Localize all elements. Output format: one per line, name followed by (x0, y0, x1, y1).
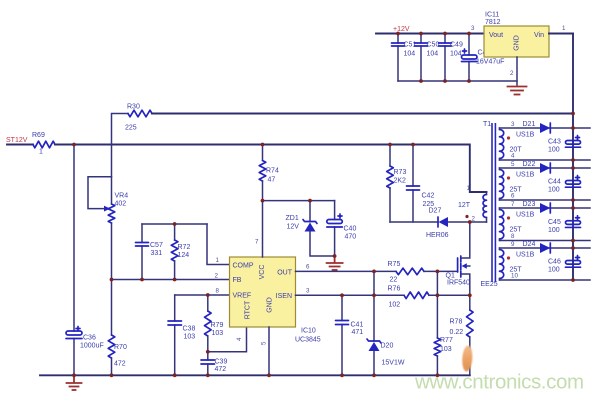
svg-text:D23: D23 (523, 201, 536, 208)
wire comp network top (142, 223, 207, 225)
svg-text:R72: R72 (178, 244, 191, 251)
resistor R78 0.22 (450, 310, 474, 375)
svg-text:VCC: VCC (259, 265, 266, 280)
svg-text:C39: C39 (215, 359, 228, 366)
potentiometer VR4 (88, 145, 128, 224)
svg-text:12T: 12T (458, 202, 471, 209)
svg-text:7812: 7812 (485, 19, 501, 26)
secondary winding 25T pins 7-8 (500, 201, 535, 241)
svg-text:US1B: US1B (516, 212, 535, 219)
capacitor C45 100 (548, 216, 581, 234)
svg-text:www.cntronics.com: www.cntronics.com (414, 371, 584, 394)
capacitor C40 470 (327, 201, 357, 256)
svg-text:C50: C50 (427, 42, 440, 49)
wire ST12V input (7, 144, 33, 146)
svg-text:225: 225 (125, 125, 137, 132)
svg-text:COMP: COMP (233, 263, 254, 270)
svg-text:3: 3 (471, 25, 475, 32)
svg-text:C49: C49 (450, 42, 463, 49)
capacitor C39 (201, 359, 227, 376)
resistor R76 (388, 286, 430, 309)
svg-text:OUT: OUT (277, 270, 293, 277)
svg-text:C46: C46 (548, 259, 561, 266)
zener ZD1 12V (286, 201, 335, 256)
phase dot secondary (507, 216, 510, 219)
svg-text:C42: C42 (422, 193, 435, 200)
svg-text:R76: R76 (388, 286, 401, 293)
wire VREF pin 8 (175, 294, 230, 296)
ground under C40 (327, 256, 343, 270)
svg-text:D22: D22 (523, 161, 536, 168)
svg-text:9: 9 (511, 241, 515, 248)
svg-text:402: 402 (115, 201, 127, 208)
svg-text:1: 1 (562, 25, 566, 32)
svg-text:6: 6 (511, 193, 515, 200)
svg-text:R30: R30 (127, 104, 140, 111)
op-amp U-controller IC10 UC3845 (230, 257, 321, 344)
resistor R79 (205, 295, 224, 360)
svg-text:16V47uF: 16V47uF (476, 59, 504, 66)
svg-text:104: 104 (450, 51, 462, 58)
capacitor C44 100 (548, 176, 581, 194)
svg-text:12V: 12V (287, 224, 300, 231)
wire R74 to VCC pin (262, 181, 264, 257)
svg-text:C41: C41 (351, 322, 364, 329)
svg-text:100: 100 (548, 147, 560, 154)
secondary winding 20T pins 3-4 (500, 121, 535, 160)
svg-text:R78: R78 (450, 319, 463, 326)
capacitor C49 (439, 34, 463, 82)
svg-text:2: 2 (215, 273, 219, 280)
svg-text:HER06: HER06 (426, 232, 449, 239)
svg-text:10: 10 (511, 273, 518, 280)
resistor R30 (112, 104, 153, 145)
resistor R75 (388, 261, 425, 284)
svg-text:470: 470 (345, 234, 357, 241)
svg-text:0.22: 0.22 (450, 329, 464, 336)
svg-text:ZD1: ZD1 (286, 215, 299, 222)
svg-text:+12V: +12V (393, 26, 410, 33)
capacitor C43 100 (548, 136, 581, 154)
svg-text:1000uF: 1000uF (80, 343, 104, 350)
svg-text:Vout: Vout (489, 32, 503, 39)
wire primary bottom (470, 221, 487, 223)
wire ground bus under caps (398, 80, 517, 82)
wire ISEN pin 3 (296, 294, 405, 296)
svg-text:UC3845: UC3845 (295, 337, 321, 344)
svg-text:102: 102 (389, 302, 401, 309)
svg-text:VREF: VREF (233, 293, 252, 300)
transistor Q1 IRF540 (446, 222, 471, 310)
svg-text:Q1: Q1 (446, 273, 455, 280)
wire VR4 to R70 (111, 223, 113, 335)
diode D27 HER06 (426, 208, 470, 240)
wire ISEN to source node (429, 294, 470, 296)
svg-text:C38: C38 (183, 326, 196, 333)
wire right vertical rail (572, 34, 574, 281)
svg-text:100: 100 (548, 267, 560, 274)
svg-text:104: 104 (404, 51, 416, 58)
wire RTCT pin 4 (208, 327, 247, 352)
wire R70 to ground rail (111, 358, 113, 375)
phase dot primary (465, 215, 468, 218)
resistor R74 (259, 145, 279, 184)
svg-text:1: 1 (467, 185, 471, 192)
svg-text:103: 103 (212, 330, 224, 337)
svg-text:1: 1 (39, 149, 43, 156)
capacitor C57 (136, 224, 163, 280)
svg-text:C45: C45 (548, 219, 561, 226)
resistor R77 (434, 271, 453, 375)
svg-text:R77: R77 (440, 337, 453, 344)
capacitor C46 100 (548, 256, 581, 274)
phase dot secondary (507, 176, 510, 179)
ground bottom left (67, 375, 82, 390)
wire ST12V rail (55, 145, 487, 193)
svg-text:100: 100 (548, 227, 560, 234)
svg-text:T1: T1 (483, 121, 491, 128)
wire COMP pin 1 (207, 224, 230, 265)
secondary winding 25T pins 9-10 (500, 241, 535, 280)
svg-text:4: 4 (236, 337, 243, 341)
wire gate (424, 270, 458, 272)
wire secondary bottom (500, 159, 591, 161)
svg-text:104: 104 (427, 51, 439, 58)
svg-text:15V1W: 15V1W (382, 360, 405, 367)
wire ground rail bottom (40, 374, 470, 376)
primary winding 12T (458, 192, 487, 222)
phase dot secondary (507, 136, 510, 139)
svg-text:R79: R79 (211, 322, 224, 329)
svg-text:6: 6 (306, 264, 310, 271)
svg-text:1: 1 (216, 257, 220, 264)
svg-text:5: 5 (261, 341, 268, 345)
svg-text:Vin: Vin (534, 32, 544, 39)
resistor R69 (32, 132, 55, 156)
capacitor C50 (415, 34, 440, 82)
wire OUT pin 6 (296, 270, 397, 272)
svg-text:4: 4 (511, 153, 515, 160)
ground under IC11 (508, 87, 527, 95)
svg-text:IC10: IC10 (301, 328, 316, 335)
svg-text:472: 472 (215, 366, 227, 373)
wire secondary top (500, 127, 591, 129)
wire secondary bottom (500, 240, 591, 242)
diode D24 US1B (523, 241, 551, 253)
zener D20 15V1W (367, 271, 405, 375)
svg-text:8: 8 (216, 288, 220, 295)
svg-text:331: 331 (151, 250, 163, 257)
svg-text:22: 22 (390, 277, 398, 284)
svg-text:124: 124 (178, 252, 190, 259)
wire secondary top (500, 247, 591, 249)
diode D22 US1B (523, 161, 551, 173)
phase dot secondary (507, 256, 510, 259)
svg-text:3: 3 (306, 288, 310, 295)
svg-text:US1B: US1B (516, 132, 535, 139)
svg-text:5: 5 (511, 161, 515, 168)
watermark flame (461, 345, 473, 372)
svg-text:47: 47 (268, 177, 276, 184)
svg-text:GND: GND (266, 297, 273, 313)
svg-text:D20: D20 (381, 343, 394, 350)
svg-text:D21: D21 (523, 121, 536, 128)
transformer core (492, 123, 495, 282)
wire FB pin 2 (112, 279, 230, 281)
svg-text:472: 472 (114, 361, 126, 368)
svg-text:R74: R74 (266, 168, 279, 175)
svg-text:D24: D24 (523, 241, 536, 248)
svg-text:US1B: US1B (516, 252, 535, 259)
resistor R72 (171, 224, 190, 280)
resistor R73 (387, 145, 407, 223)
svg-text:8: 8 (511, 233, 515, 240)
wire IC11 Vin to right rail (549, 33, 573, 35)
wire snubber bottom (390, 221, 438, 223)
svg-text:IC11: IC11 (485, 12, 499, 19)
svg-text:ISEN: ISEN (276, 293, 292, 300)
svg-text:R75: R75 (388, 261, 401, 268)
wire +12V rail to IC11 Vout (376, 33, 484, 35)
svg-text:US1B: US1B (516, 172, 535, 179)
pin 5 GND wire (268, 327, 270, 375)
capacitor C42 (407, 145, 435, 223)
svg-text:103: 103 (440, 346, 452, 353)
svg-text:C44: C44 (548, 179, 561, 186)
svg-text:100: 100 (548, 187, 560, 194)
svg-text:2: 2 (510, 70, 514, 77)
svg-text:7: 7 (511, 201, 515, 208)
svg-text:ST12V: ST12V (6, 137, 28, 144)
wire secondary bottom (500, 279, 591, 281)
svg-text:RTCT: RTCT (244, 300, 251, 319)
svg-text:VR4: VR4 (115, 193, 129, 200)
capacitor C47 16V47uF (462, 34, 505, 82)
svg-text:D27: D27 (429, 208, 442, 215)
resistor R70 (108, 335, 127, 368)
svg-text:2K2: 2K2 (394, 178, 407, 185)
wire secondary bottom (500, 199, 591, 201)
svg-text:GND: GND (513, 35, 520, 51)
svg-text:C43: C43 (548, 139, 561, 146)
diode D21 US1B (523, 121, 551, 133)
svg-text:471: 471 (352, 329, 364, 336)
wire VCC node horizontal (263, 200, 335, 202)
svg-text:3: 3 (511, 121, 515, 128)
wire top rail R30 to Vin rail (152, 113, 573, 115)
wire IC11 GND pin (516, 57, 518, 85)
svg-text:103: 103 (184, 334, 196, 341)
svg-text:R70: R70 (114, 344, 127, 351)
svg-text:C36: C36 (83, 335, 96, 342)
svg-text:C40: C40 (344, 226, 357, 233)
svg-text:R73: R73 (394, 169, 407, 176)
secondary winding 25T pins 5-6 (500, 161, 535, 200)
svg-text:IRF540: IRF540 (447, 280, 470, 287)
capacitor C51 (392, 34, 417, 82)
capacitor C38 (168, 295, 195, 375)
svg-text:FB: FB (233, 277, 242, 284)
wire secondary top (500, 167, 591, 169)
svg-text:7: 7 (255, 239, 259, 246)
svg-text:R69: R69 (32, 132, 45, 139)
diode D23 US1B (523, 201, 551, 213)
wire secondary top (500, 207, 591, 209)
svg-text:C57: C57 (150, 242, 163, 249)
capacitor C36 1000uF (66, 145, 104, 376)
svg-text:EE25: EE25 (481, 281, 498, 288)
capacitor C41 (336, 295, 364, 375)
op-amp U-reg IC11 7812 (484, 12, 549, 58)
